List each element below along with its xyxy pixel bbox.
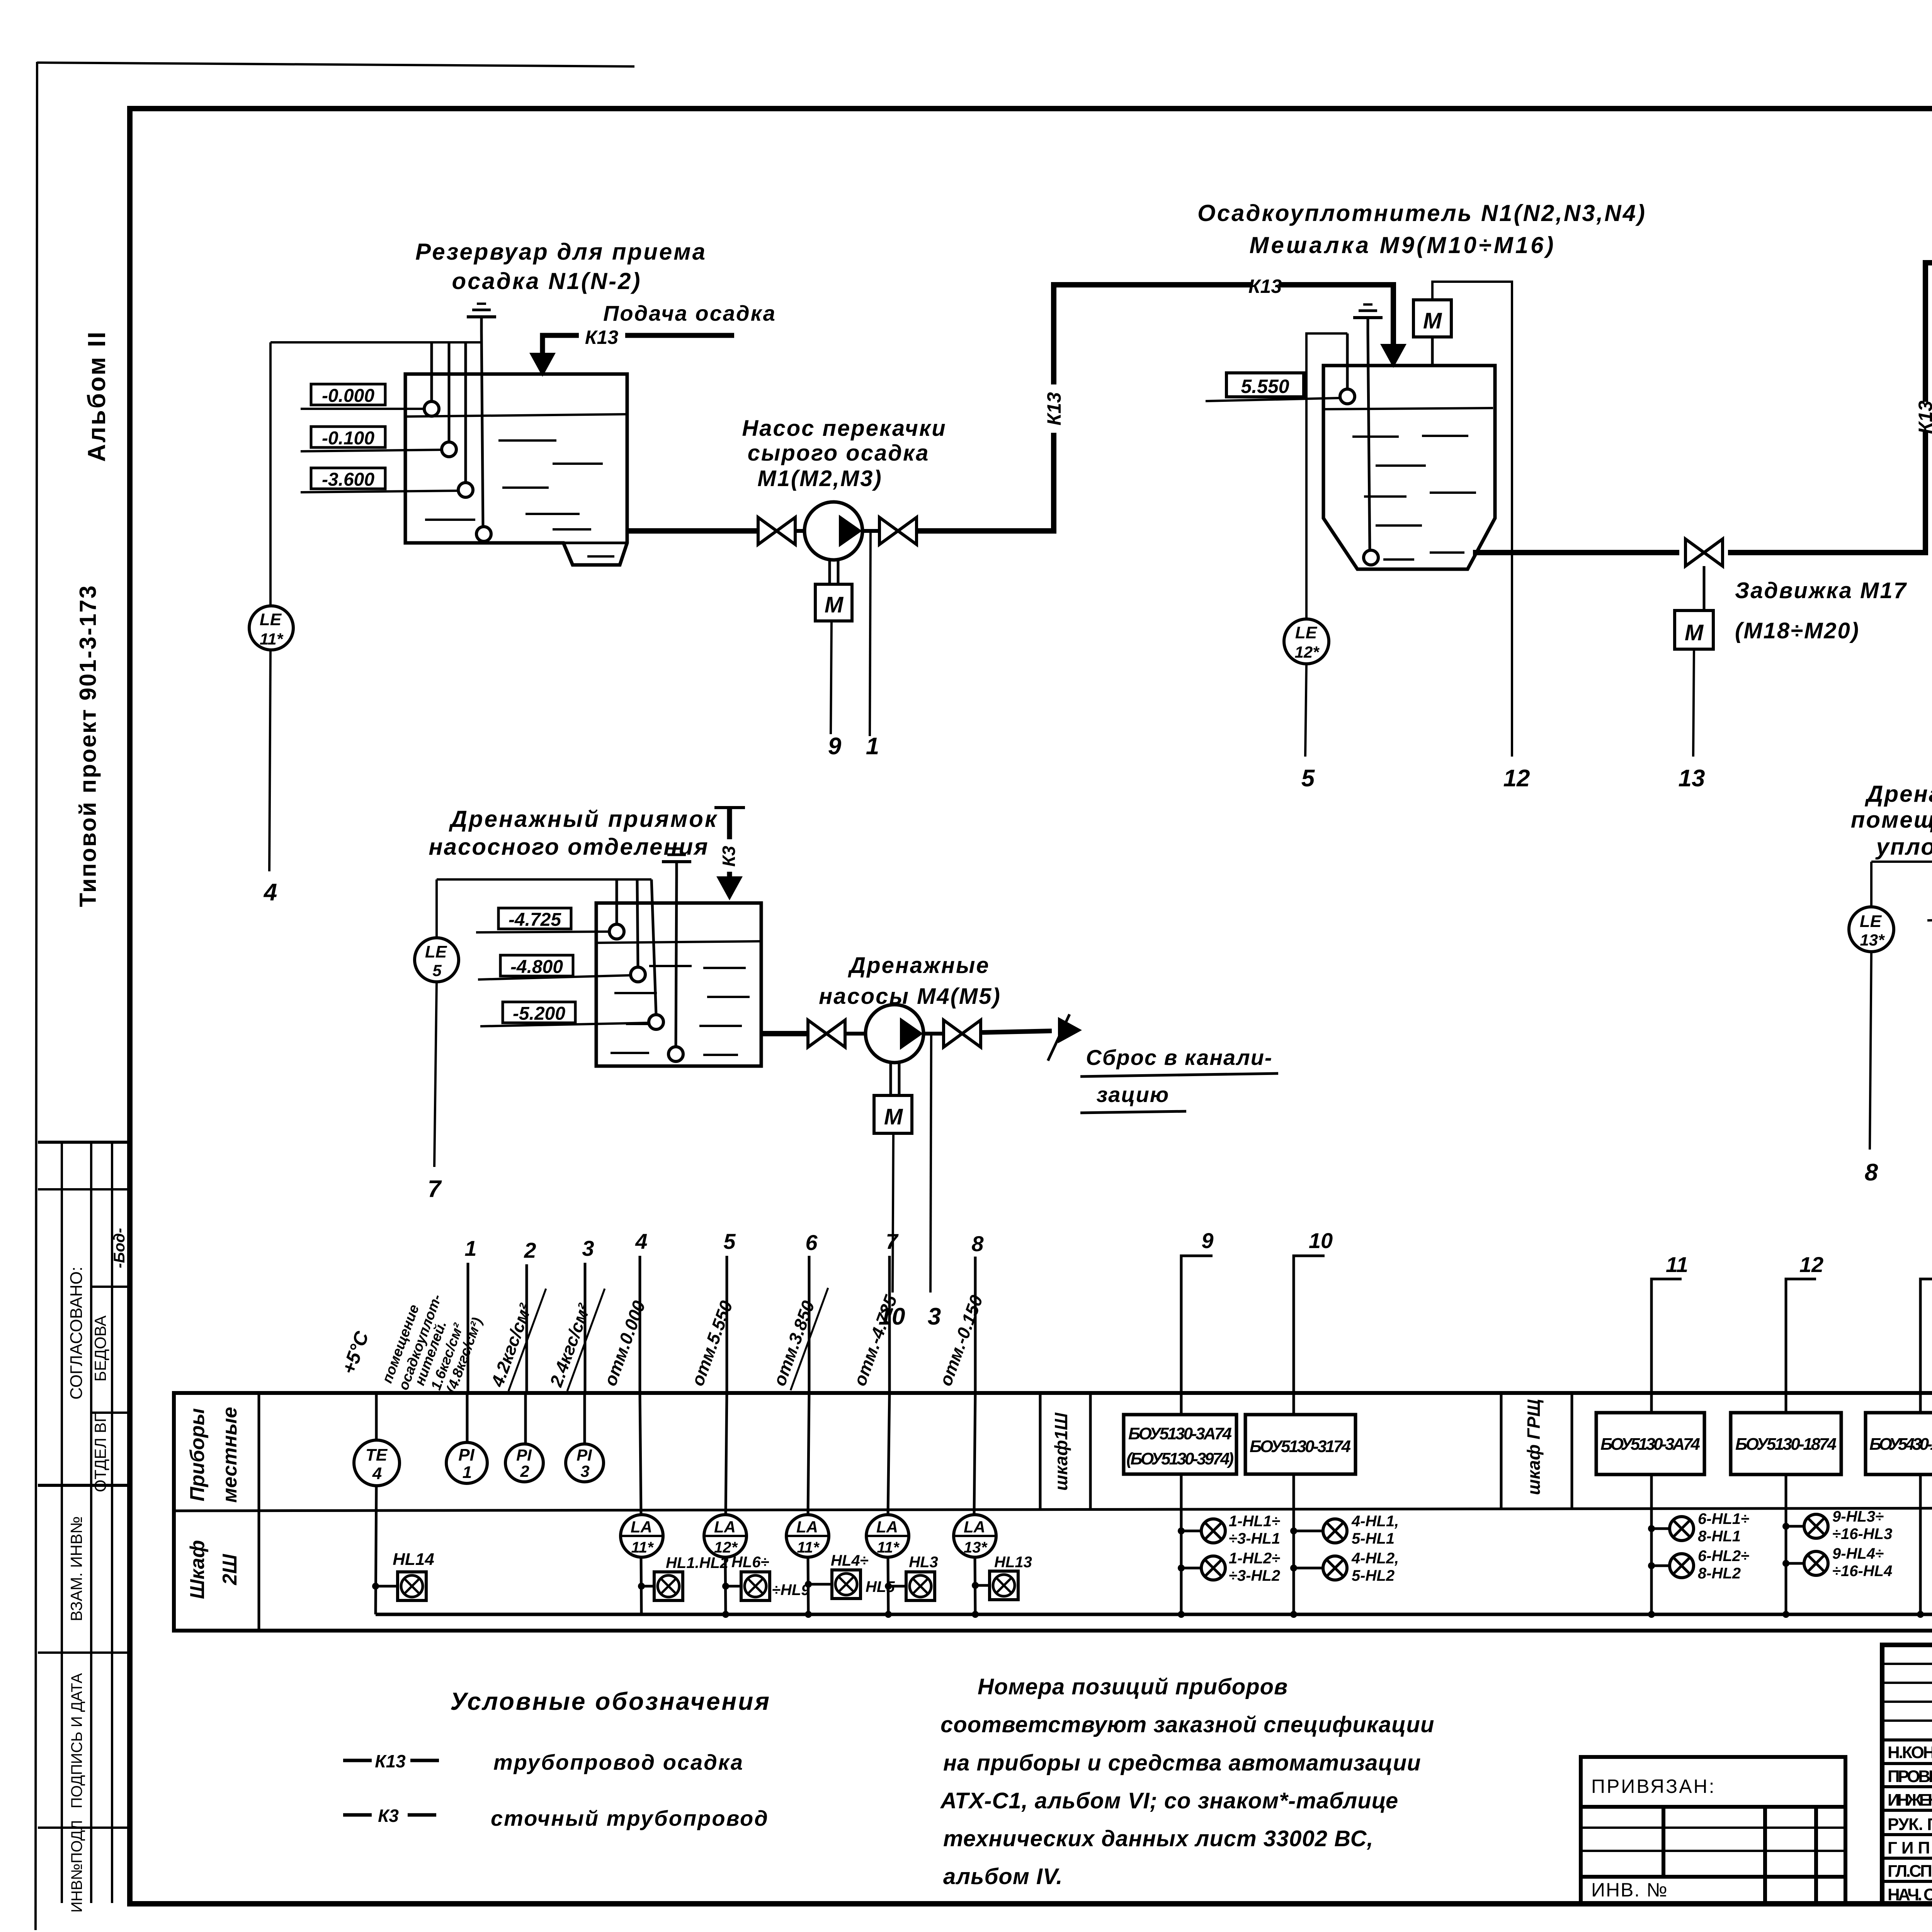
svg-text:6-НL2÷: 6-НL2÷ <box>1698 1548 1749 1565</box>
svg-text:Условные обозначения: Условные обозначения <box>450 1687 771 1715</box>
relay box B3 <box>1650 1393 1653 1614</box>
relay box B4 <box>1785 1393 1787 1614</box>
pipe K3 feed P1 <box>714 806 745 809</box>
svg-text:ГЛ.СПЕЦ: ГЛ.СПЕЦ <box>1888 1862 1932 1881</box>
svg-text:5-НL1: 5-НL1 <box>1352 1530 1395 1547</box>
svg-text:7: 7 <box>428 1176 442 1202</box>
svg-text:-5.200: -5.200 <box>513 1003 565 1024</box>
svg-text:(БОУ5130-3974): (БОУ5130-3974) <box>1126 1449 1234 1468</box>
svg-text:насосного отделения: насосного отделения <box>429 834 709 860</box>
bus wire <box>376 1613 1932 1616</box>
wire TE4 down to bus <box>376 1486 376 1614</box>
svg-text:5-НL2: 5-НL2 <box>1352 1567 1395 1584</box>
lamp HL13 <box>975 1557 975 1614</box>
svg-text:Задвижка М17: Задвижка М17 <box>1735 578 1907 603</box>
instrument LE 11* (T1) <box>269 342 272 606</box>
P1 sensor stems <box>616 879 618 925</box>
svg-text:9: 9 <box>828 733 842 760</box>
svg-text:13*: 13* <box>964 1539 988 1556</box>
level mark -5.200 <box>503 1002 575 1023</box>
svg-text:-3.600: -3.600 <box>322 469 374 490</box>
svg-text:М1(М2,М3): М1(М2,М3) <box>757 466 882 491</box>
svg-text:НL13: НL13 <box>994 1554 1032 1571</box>
svg-text:2: 2 <box>524 1238 536 1262</box>
svg-text:11*: 11* <box>260 630 284 648</box>
svg-text:5: 5 <box>1301 765 1315 792</box>
svg-text:ГИП: ГИП <box>1888 1838 1930 1857</box>
lamp HL3 <box>888 1557 888 1614</box>
svg-text:1-НL2÷: 1-НL2÷ <box>1229 1550 1280 1567</box>
svg-text:местные: местные <box>219 1407 241 1503</box>
mixer M9 motor <box>1413 300 1451 337</box>
svg-text:6-НL1÷: 6-НL1÷ <box>1698 1510 1749 1527</box>
svg-text:3: 3 <box>580 1462 589 1480</box>
level mark 5.550 <box>1226 373 1304 397</box>
title block roles <box>1888 1743 1932 1904</box>
svg-text:К13: К13 <box>1915 401 1932 434</box>
cell шкаф ГРЩ <box>1500 1393 1503 1509</box>
instrument LE 5 (P1) <box>435 879 438 938</box>
signal line 7 <box>888 1256 891 1393</box>
svg-text:ИНВ№ПОДЛ: ИНВ№ПОДЛ <box>68 1820 85 1913</box>
svg-text:соответствуют заказной специфи: соответствуют заказной спецификации <box>940 1712 1434 1737</box>
svg-text:7: 7 <box>886 1229 899 1253</box>
ground on T2 <box>1353 304 1383 332</box>
signal line 12 <box>1786 1279 1816 1393</box>
svg-text:шкаф ГРЩ: шкаф ГРЩ <box>1524 1399 1544 1495</box>
pipe P1 outlet <box>761 1031 806 1036</box>
svg-text:LЕ: LЕ <box>260 610 282 629</box>
svg-text:8: 8 <box>971 1231 984 1256</box>
lamp group 12 <box>1782 1523 1789 1530</box>
svg-text:насосы М4(М5): насосы М4(М5) <box>819 984 1001 1009</box>
signal line 13 <box>1920 1279 1932 1393</box>
svg-text:9: 9 <box>1201 1228 1213 1253</box>
tank T1 body <box>405 374 627 565</box>
svg-text:Номера позиций приборов: Номера позиций приборов <box>978 1674 1288 1699</box>
svg-text:-4.800: -4.800 <box>510 957 563 977</box>
svg-text:НL1.НL2: НL1.НL2 <box>666 1554 728 1571</box>
svg-text:зацию: зацию <box>1097 1082 1170 1107</box>
pipe from M17 to riser <box>1728 431 1925 553</box>
svg-text:М: М <box>884 1104 903 1129</box>
lamp HL14 <box>372 1583 379 1590</box>
svg-text:РI: РI <box>458 1446 474 1464</box>
svg-text:К13: К13 <box>1248 276 1282 297</box>
svg-text:3: 3 <box>582 1236 594 1260</box>
svg-text:12: 12 <box>1503 765 1530 792</box>
svg-text:РУК. ГР.: РУК. ГР. <box>1888 1815 1932 1834</box>
svg-text:2: 2 <box>520 1462 529 1480</box>
wire arrow into T1 <box>529 353 556 377</box>
pit P1 water level <box>597 941 760 943</box>
svg-text:сточный трубопровод: сточный трубопровод <box>491 1806 769 1830</box>
signal line 11 <box>1651 1279 1682 1393</box>
T1 sensor bracket wire <box>270 341 481 344</box>
tank T2 body <box>1323 366 1495 569</box>
node labels 1-13 <box>464 1228 1932 1277</box>
svg-text:4: 4 <box>372 1464 382 1483</box>
signal line 10 <box>1294 1256 1325 1393</box>
table frame <box>174 1393 1932 1631</box>
T2 sensor stem <box>1346 333 1349 389</box>
svg-text:РI: РI <box>577 1446 592 1464</box>
ground on P1 <box>662 849 691 876</box>
svg-text:1: 1 <box>464 1236 476 1260</box>
svg-text:8-НL1: 8-НL1 <box>1698 1528 1741 1545</box>
svg-text:РI: РI <box>516 1446 532 1464</box>
svg-text:Сброс в канали-: Сброс в канали- <box>1086 1045 1272 1070</box>
slanted tag помещение осадкоуплотнителей <box>379 1292 485 1395</box>
svg-text:12*: 12* <box>1294 643 1320 661</box>
lamp group 10 <box>1290 1527 1297 1534</box>
svg-text:2Ш: 2Ш <box>219 1554 241 1585</box>
svg-text:шкаф1Ш: шкаф1Ш <box>1051 1412 1071 1491</box>
level mark -4.725 <box>498 908 571 929</box>
float sensors P1 <box>609 924 624 939</box>
svg-text:11*: 11* <box>631 1539 654 1556</box>
valve V4a <box>808 1020 845 1047</box>
valve V4b <box>944 1020 981 1047</box>
outer border left <box>36 62 37 1930</box>
svg-text:LА: LА <box>876 1518 898 1536</box>
svg-text:9-НL3÷: 9-НL3÷ <box>1832 1508 1884 1525</box>
svg-text:трубопровод осадка: трубопровод осадка <box>493 1750 744 1774</box>
svg-text:М: М <box>1685 620 1704 645</box>
title block <box>1882 1645 1932 1904</box>
svg-text:БОУ5130-3174: БОУ5130-3174 <box>1250 1437 1351 1456</box>
svg-text:12: 12 <box>1799 1252 1823 1277</box>
svg-text:5.550: 5.550 <box>1241 376 1289 397</box>
wire K13 to T2 <box>1279 285 1393 350</box>
svg-text:помещение осадко-: помещение осадко- <box>1851 807 1932 833</box>
wire mixer to node 12 <box>1432 282 1512 757</box>
svg-text:LЕ: LЕ <box>425 942 447 961</box>
signal line 5 <box>726 1256 728 1393</box>
svg-text:10: 10 <box>1309 1228 1333 1253</box>
svg-text:технических данных лист 33002: технических данных лист 33002 ВС, <box>943 1826 1374 1851</box>
relay box B5 <box>1919 1393 1922 1614</box>
signal line 8 <box>974 1257 977 1393</box>
svg-text:Н.КОНТР.: Н.КОНТР. <box>1888 1743 1932 1762</box>
cell шкаф1Ш <box>1039 1393 1042 1509</box>
svg-text:Дренажные: Дренажные <box>847 953 990 978</box>
table Привязан <box>1581 1757 1845 1903</box>
svg-text:4: 4 <box>635 1229 647 1253</box>
P2 sensor stem <box>1871 862 1932 909</box>
instrument PI 3 <box>583 1393 586 1444</box>
svg-text:11*: 11* <box>797 1539 820 1556</box>
svg-text:Типовой проект 901-3-173: Типовой проект 901-3-173 <box>75 585 101 907</box>
svg-text:БОУ5130-1874: БОУ5130-1874 <box>1735 1435 1837 1454</box>
svg-text:К3: К3 <box>719 846 739 867</box>
ground on T1 sensor <box>467 304 496 332</box>
lamp HL1.HL2 <box>641 1557 641 1614</box>
signal line 6 <box>808 1256 811 1393</box>
svg-text:БОУ5130-3А74: БОУ5130-3А74 <box>1128 1424 1232 1443</box>
svg-text:альбом IV.: альбом IV. <box>943 1864 1063 1889</box>
relay box B1 <box>1180 1393 1183 1614</box>
signal line 2 <box>526 1264 528 1393</box>
pipe to riser <box>918 433 1054 531</box>
svg-text:НL6÷: НL6÷ <box>731 1554 769 1571</box>
svg-text:ТЕ: ТЕ <box>366 1446 388 1464</box>
svg-text:-0.100: -0.100 <box>322 428 374 449</box>
svg-text:LА: LА <box>631 1518 652 1536</box>
svg-text:÷3-НL2: ÷3-НL2 <box>1229 1567 1280 1584</box>
P1 sensor bracket wire <box>437 878 651 881</box>
svg-text:БОУ5430-1874Г: БОУ5430-1874Г <box>1869 1435 1932 1454</box>
svg-text:1: 1 <box>463 1463 472 1482</box>
svg-text:НL14: НL14 <box>393 1550 434 1569</box>
table label column <box>258 1393 260 1631</box>
svg-text:К13: К13 <box>375 1751 406 1771</box>
instrument LA 11* a <box>640 1393 641 1515</box>
svg-text:5: 5 <box>723 1229 736 1253</box>
legend K3 pipe <box>343 1813 372 1817</box>
pump M1 <box>804 502 862 560</box>
margin column lines <box>61 1142 63 1903</box>
lamp group 9 <box>1178 1527 1185 1534</box>
svg-text:сырого осадка: сырого осадка <box>748 440 930 466</box>
svg-text:6: 6 <box>805 1230 818 1255</box>
svg-text:LА: LА <box>714 1518 736 1536</box>
pump M4 <box>866 1005 923 1063</box>
svg-text:13: 13 <box>1679 765 1705 792</box>
relay box B2 <box>1293 1393 1295 1614</box>
signal line 3 <box>584 1263 587 1393</box>
svg-text:Шкаф: Шкаф <box>186 1540 209 1599</box>
svg-text:НАЧ. ОТД: НАЧ. ОТД <box>1888 1885 1932 1904</box>
svg-text:БОУ5130-3А74: БОУ5130-3А74 <box>1600 1435 1700 1454</box>
tank T2 water level <box>1324 408 1493 409</box>
instrument LA 11* b <box>808 1393 809 1515</box>
svg-text:9-НL4÷: 9-НL4÷ <box>1832 1545 1884 1562</box>
svg-text:ПРИВЯЗАН:: ПРИВЯЗАН: <box>1591 1776 1716 1797</box>
tank T1 water level <box>406 414 626 417</box>
wire to node 13 <box>1693 649 1694 757</box>
legend K13 pipe <box>343 1759 372 1762</box>
svg-text:(М18÷М20): (М18÷М20) <box>1735 618 1860 643</box>
svg-text:LА: LА <box>796 1518 818 1536</box>
svg-text:Подача осадка: Подача осадка <box>603 301 776 325</box>
svg-text:8-НL2: 8-НL2 <box>1698 1565 1741 1582</box>
svg-text:1-НL1÷: 1-НL1÷ <box>1229 1513 1280 1530</box>
wire discharge P1 <box>982 1031 1052 1032</box>
signal line 9 <box>1181 1256 1213 1393</box>
wire to node 9 <box>831 621 832 734</box>
instrument LA 11* c <box>888 1393 889 1515</box>
valve V1a <box>758 517 795 544</box>
svg-text:1: 1 <box>866 733 879 760</box>
svg-text:11: 11 <box>1666 1252 1688 1277</box>
motor M of pump M1 <box>828 559 831 584</box>
svg-text:осадка N1(N-2): осадка N1(N-2) <box>452 268 642 294</box>
svg-text:НL3: НL3 <box>909 1554 938 1571</box>
signal line 4 <box>639 1256 641 1393</box>
instrument TE 4 <box>375 1393 378 1440</box>
level mark -3.600 <box>311 468 385 489</box>
svg-text:-Бод-: -Бод- <box>111 1228 128 1268</box>
pipe K13 feed to T1 <box>625 333 734 338</box>
level mark -4.800 <box>500 955 573 976</box>
svg-text:М: М <box>825 592 844 617</box>
svg-text:ИНВ. №: ИНВ. № <box>1591 1879 1668 1901</box>
svg-text:÷3-НL1: ÷3-НL1 <box>1229 1530 1280 1547</box>
svg-text:-0.000: -0.000 <box>322 386 374 406</box>
svg-text:Осадкоуплотнитель N1(N2,N3,N4): Осадкоуплотнитель N1(N2,N3,N4) <box>1197 200 1646 226</box>
svg-text:4-НL1,: 4-НL1, <box>1351 1513 1399 1530</box>
svg-text:К3: К3 <box>378 1806 399 1826</box>
pipe T2 outlet <box>1473 550 1679 555</box>
svg-text:ОТДЕЛ ВГ: ОТДЕЛ ВГ <box>91 1413 109 1492</box>
instrument LA 13* <box>974 1393 975 1515</box>
svg-text:-4.725: -4.725 <box>509 910 561 930</box>
T2 electrode stem <box>1368 332 1370 550</box>
table row divider <box>174 1508 1932 1511</box>
lamp HL6-HL9 <box>725 1557 726 1614</box>
svg-text:÷16-НL4: ÷16-НL4 <box>1832 1563 1892 1580</box>
lamp group 11 <box>1648 1525 1655 1532</box>
svg-text:АТХ-С1, альбом VI; со знаком*-: АТХ-С1, альбом VI; со знаком*-таблице <box>940 1788 1398 1813</box>
svg-text:ПОДПИСЬ И ДАТА: ПОДПИСЬ И ДАТА <box>68 1673 85 1808</box>
motor M of pump M4 <box>889 1062 892 1095</box>
instrument PI 1 <box>466 1393 469 1442</box>
svg-text:11*: 11* <box>877 1539 900 1556</box>
wire to node 10 <box>893 1133 893 1293</box>
svg-text:Насос перекачки: Насос перекачки <box>742 416 946 441</box>
svg-text:Приборы: Приборы <box>186 1408 209 1501</box>
instrument LE 13* (P2) <box>1870 862 1872 907</box>
instrument PI 2 <box>524 1393 527 1444</box>
svg-text:4-НL2,: 4-НL2, <box>1351 1550 1399 1567</box>
float sensor T2 <box>1364 550 1378 565</box>
svg-text:М: М <box>1423 308 1442 333</box>
svg-text:СОГЛАСОВАНО:: СОГЛАСОВАНО: <box>67 1267 86 1400</box>
pipe T1 outlet <box>627 528 757 534</box>
level mark -0.000 <box>311 384 385 405</box>
valve M17 actuator <box>1703 566 1706 611</box>
svg-text:4: 4 <box>263 879 277 906</box>
wire to node 1 <box>870 531 871 736</box>
svg-text:3: 3 <box>928 1303 941 1330</box>
svg-text:К13: К13 <box>585 327 619 348</box>
svg-text:LА: LА <box>964 1518 985 1536</box>
valve V1b <box>879 517 917 544</box>
float sensors T1 <box>424 401 439 416</box>
T1 sensor stems <box>430 342 433 401</box>
svg-text:ВЗАМ. ИНВ№: ВЗАМ. ИНВ№ <box>67 1516 85 1621</box>
wire to node 3 <box>930 1032 931 1293</box>
lamp HL4-HL5 <box>808 1557 808 1614</box>
svg-text:LЕ: LЕ <box>1860 912 1882 931</box>
level mark -0.100 <box>311 427 385 447</box>
svg-text:LЕ: LЕ <box>1295 623 1318 642</box>
svg-text:13*: 13* <box>1860 931 1885 949</box>
svg-text:Альбом II: Альбом II <box>83 330 111 462</box>
pit P1 body <box>596 903 761 1066</box>
instrument LE 12* (T2) <box>1306 333 1347 619</box>
margin row lines <box>38 1141 130 1144</box>
svg-text:на приборы и средства автомати: на приборы и средства автоматизации <box>943 1750 1421 1776</box>
signal line 1 <box>467 1263 469 1393</box>
note text block <box>940 1674 1434 1889</box>
svg-text:БЕДОВА: БЕДОВА <box>91 1315 109 1381</box>
svg-text:уплотнителей: уплотнителей <box>1875 834 1932 860</box>
svg-text:5: 5 <box>432 961 442 980</box>
svg-text:ИНЖЕНЕР: ИНЖЕНЕР <box>1888 1791 1932 1810</box>
outer border top <box>37 63 634 66</box>
float sensor T2a <box>1340 389 1355 404</box>
svg-text:НL4÷: НL4÷ <box>831 1552 869 1569</box>
svg-text:К13: К13 <box>1043 392 1065 426</box>
svg-text:÷16-НL3: ÷16-НL3 <box>1832 1526 1892 1543</box>
svg-text:Дренажный приямок: Дренажный приямок <box>1864 781 1932 807</box>
instrument LA 12* <box>726 1393 727 1515</box>
svg-text:8: 8 <box>1865 1159 1878 1186</box>
svg-text:Резервуар для приема: Резервуар для приема <box>415 239 707 265</box>
svg-text:÷НL9: ÷НL9 <box>772 1582 810 1599</box>
valve M17 <box>1685 539 1723 566</box>
svg-text:Мешалка М9(М10÷М16): Мешалка М9(М10÷М16) <box>1250 232 1556 258</box>
svg-text:ПРОВЕР.: ПРОВЕР. <box>1888 1767 1932 1786</box>
svg-text:Дренажный приямок: Дренажный приямок <box>449 806 718 832</box>
